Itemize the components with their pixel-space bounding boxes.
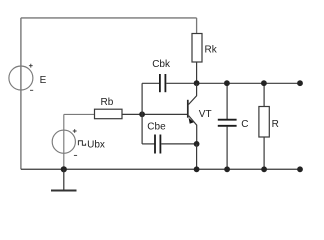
svg-text:Ubx: Ubx [87, 140, 105, 151]
wire node B riser [141, 83, 143, 144]
node collector junction [194, 80, 200, 86]
node output top terminal [297, 80, 303, 86]
wire Rk bottom lead [196, 62, 198, 83]
wire base feed [64, 113, 95, 115]
signal source U Ubx [52, 129, 77, 155]
wire Ubx riser [63, 114, 65, 169]
wire C bottom lead [226, 126, 228, 169]
wire collector rail [197, 82, 300, 84]
svg-text:Rk: Rk [205, 45, 218, 56]
svg-text:E: E [40, 75, 47, 86]
capacitor C [218, 120, 237, 126]
node emitter bottom junction [194, 166, 200, 172]
wire top rail [21, 17, 197, 19]
wire Cbk right lead [166, 82, 196, 84]
wire bottom rail [21, 168, 300, 170]
svg-text:C: C [241, 119, 248, 130]
svg-text:Cbe: Cbe [147, 122, 166, 133]
wire left vertical [20, 18, 22, 169]
wire R bottom lead [263, 137, 265, 169]
node C top junction [224, 80, 230, 86]
node output bottom terminal [297, 166, 303, 172]
svg-text:R: R [272, 119, 279, 130]
wire R top lead [263, 83, 265, 106]
svg-text:VT: VT [199, 109, 212, 120]
wire Rk top lead [196, 18, 198, 34]
node R bottom junction [261, 166, 267, 172]
svg-text:Cbk: Cbk [152, 59, 171, 70]
wire Rb to base bar [122, 113, 188, 115]
wire Cbk left lead [142, 82, 159, 84]
node emitter junction [194, 141, 200, 147]
ground [51, 169, 77, 190]
node B junction [139, 111, 145, 117]
node R top junction [261, 80, 267, 86]
wire Cbe right lead [161, 143, 196, 145]
capacitor Cbk [160, 74, 166, 92]
transistor VT [188, 83, 197, 144]
resistor Rb [95, 109, 123, 119]
resistor Rk [192, 34, 202, 63]
wire Cbe left lead [142, 143, 154, 145]
node ground junction [61, 166, 67, 172]
voltage source E [9, 64, 33, 91]
square-wave glyph [78, 141, 85, 146]
resistor R [259, 107, 269, 138]
node C bottom junction [224, 166, 230, 172]
capacitor Cbe [155, 135, 160, 154]
svg-text:Rb: Rb [101, 97, 114, 108]
wire C top lead [226, 83, 228, 119]
wire emitter to bottom [196, 144, 198, 169]
